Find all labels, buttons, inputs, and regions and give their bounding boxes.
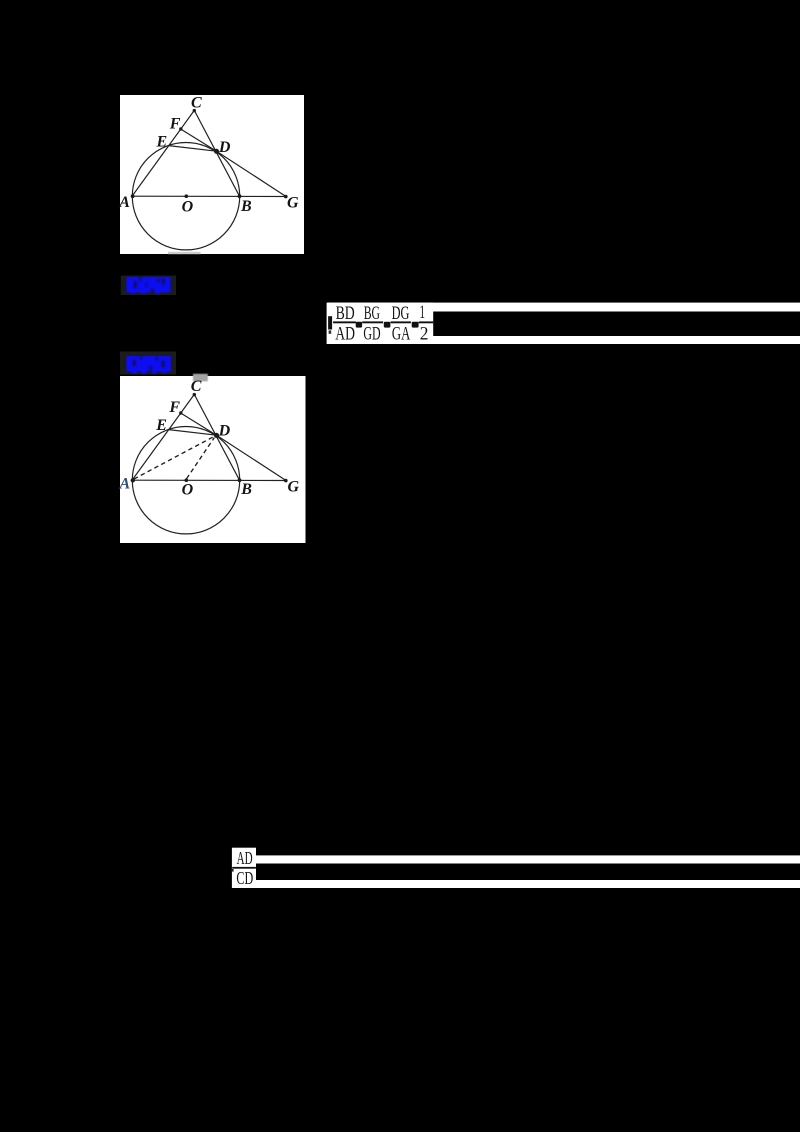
svg-text:G: G — [288, 478, 300, 495]
node F dot (fig1) — [179, 127, 182, 130]
node O dot (fig1) — [185, 194, 189, 198]
figure 2 white box — [120, 376, 306, 543]
node F dot (fig2) — [179, 411, 182, 414]
chord E-D (fig1) — [169, 146, 217, 152]
svg-text:GD: GD — [363, 324, 380, 344]
leftover glyph fragment at left edge (eq1) — [328, 316, 332, 329]
svg-text:D: D — [218, 139, 231, 156]
circle O (fig2) — [132, 427, 239, 534]
leftover glyph fragment at left edge (eq2) — [232, 869, 234, 872]
svg-text:A: A — [118, 194, 130, 211]
line A-C through E,F (fig2) — [132, 394, 194, 480]
fraction bar 1 (eq1) — [333, 321, 356, 323]
figure 1 white box — [120, 95, 304, 254]
svg-text:1: 1 — [420, 303, 426, 323]
wire line A-O-B-G (fig1) — [132, 195, 286, 197]
svg-text:C: C — [191, 94, 202, 111]
svg-text:AD: AD — [237, 848, 253, 868]
svg-text:2: 2 — [420, 324, 429, 344]
fraction bar 2 (eq1) — [362, 321, 383, 323]
fraction bar 4 (eq1) — [419, 321, 434, 323]
line D-G (fig2) — [217, 435, 287, 480]
equals blob 3 (eq1) — [412, 322, 419, 328]
node B dot (fig1) — [238, 194, 242, 198]
line A-C through E,F (fig1) — [132, 110, 194, 196]
white block behind AD/CD (eq2) — [232, 848, 256, 888]
svg-text:O: O — [182, 482, 194, 499]
dashed line O-D (fig2) — [187, 438, 215, 479]
blue bracketed tag text 1 — [126, 277, 170, 294]
dark tag box 2 — [120, 352, 176, 375]
node G dot (fig2) — [284, 479, 288, 483]
equals blob 2 (eq1) — [384, 322, 391, 328]
circle O (fig1) — [132, 143, 239, 250]
svg-text:B: B — [240, 198, 252, 215]
white text-line strip upper (eq2) — [232, 855, 800, 863]
dark tag box 1 — [121, 276, 176, 296]
gray tab above figure 2 — [193, 374, 208, 382]
svg-text:O: O — [182, 198, 194, 215]
svg-text:E: E — [156, 133, 168, 150]
node C dot (fig2) — [193, 393, 196, 396]
node D dot (fig1) — [214, 149, 219, 154]
blue bracketed tag text 2 — [126, 356, 171, 374]
wire line A-O-B-G (fig2) — [132, 479, 286, 481]
dashed line A-D (fig2) — [134, 436, 215, 479]
svg-text:AD: AD — [335, 324, 355, 344]
line D-G (fig1) — [217, 151, 287, 196]
svg-text:G: G — [287, 195, 299, 212]
node D dot (fig2) — [214, 433, 219, 438]
svg-text:B: B — [240, 481, 252, 498]
svg-text:DG: DG — [392, 304, 410, 324]
svg-text:F: F — [169, 115, 181, 132]
gray smudge under circle bottom (fig1) — [168, 252, 201, 254]
node G dot (fig1) — [284, 195, 288, 199]
white block behind fractions (eq1) — [327, 303, 434, 344]
node C dot (fig1) — [193, 109, 196, 112]
svg-text:C: C — [191, 378, 202, 395]
fraction bar 3 (eq1) — [391, 321, 411, 323]
line C-B through D (fig2) — [194, 394, 239, 480]
svg-text:E: E — [155, 417, 167, 434]
node A dot (fig1) — [131, 194, 135, 198]
svg-text:BD: BD — [336, 304, 355, 324]
white text-line strip upper (eq1) — [328, 303, 800, 312]
fraction bar (eq2) — [232, 867, 256, 869]
line C-B through D (fig1) — [194, 110, 239, 196]
node A dot (fig2) — [131, 478, 135, 482]
node O dot (fig2) — [185, 478, 189, 482]
white text-line strip lower (eq2) — [232, 880, 800, 888]
line F-D (fig1) — [181, 129, 217, 151]
chord E-D (fig2) — [169, 430, 217, 436]
node B dot (fig2) — [238, 478, 242, 482]
line F-D (fig2) — [181, 413, 217, 435]
white text-line strip lower (eq1) — [328, 336, 800, 344]
svg-text:D: D — [218, 422, 231, 439]
svg-text:F: F — [168, 399, 180, 416]
equals blob 1 (eq1) — [356, 322, 362, 328]
svg-text:BG: BG — [364, 304, 380, 324]
svg-text:GA: GA — [392, 324, 411, 344]
svg-text:A: A — [119, 475, 131, 492]
svg-text:CD: CD — [236, 868, 253, 888]
